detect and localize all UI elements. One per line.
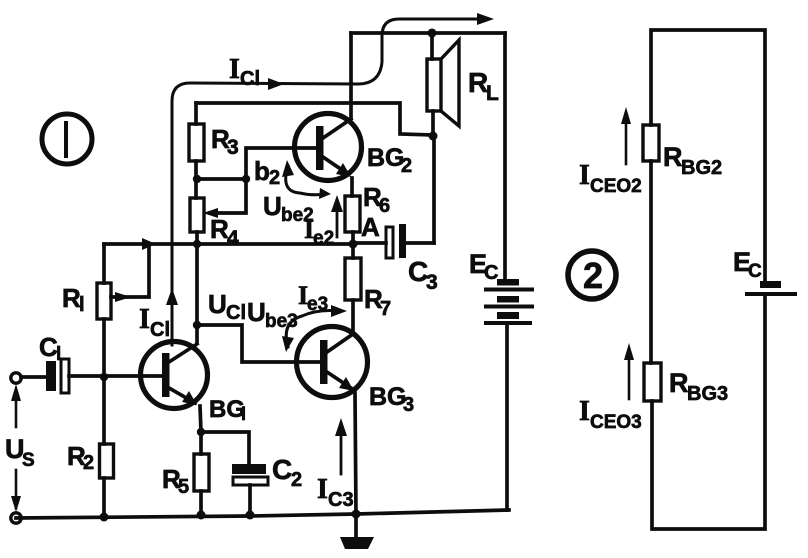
transistor BG1 collector stroke	[169, 344, 197, 362]
resistor R2 body	[100, 444, 114, 478]
svg-text:CEO2: CEO2	[590, 176, 642, 197]
svg-text:e2: e2	[313, 228, 334, 249]
input terminal bottom	[11, 513, 21, 523]
svg-text:Cl: Cl	[150, 319, 170, 341]
svg-text:2: 2	[583, 255, 603, 296]
svg-text:2: 2	[83, 452, 94, 474]
wire emitter node to R5	[199, 432, 203, 454]
svg-text:be3: be3	[265, 311, 298, 332]
transistor BG2 circle	[295, 114, 362, 181]
battery EC right short bar	[760, 281, 781, 288]
battery EC main cell bar 4 long	[486, 305, 532, 309]
battery EC main cell bar 6 long	[486, 321, 530, 325]
battery EC right long bar	[747, 292, 795, 296]
svg-text:I: I	[139, 304, 150, 335]
wire R3-top rail to speaker bottom node	[196, 103, 433, 135]
circled label 1	[42, 114, 92, 164]
svg-text:R: R	[663, 142, 683, 172]
current arc Ube2	[286, 166, 326, 195]
transistor BG3 circle	[297, 327, 368, 398]
svg-text:2: 2	[269, 167, 280, 189]
arrowhead Ube2 arc end	[319, 188, 331, 199]
ground symbol	[340, 537, 374, 549]
input terminal top	[11, 373, 21, 383]
resistor R7 body	[345, 258, 361, 300]
svg-text:BG: BG	[209, 396, 245, 423]
arrowhead ICEO2	[621, 107, 631, 124]
arrowhead IC3	[335, 418, 347, 436]
junction dot input node	[100, 373, 108, 381]
junction dot emitter node BG1	[197, 428, 205, 436]
junction dot UC1 branch	[193, 321, 201, 329]
junction dot ground rail R5	[197, 511, 206, 520]
wire b2 down to R4 wiper	[210, 181, 246, 213]
svg-text:2: 2	[401, 155, 412, 177]
wire speaker top lead	[430, 33, 434, 59]
wire right rail to battery top	[503, 33, 507, 279]
speaker RL frame	[427, 59, 441, 111]
svg-text:6: 6	[379, 195, 390, 217]
current arrow ICEO2	[625, 120, 628, 164]
wire R2 to ground rail	[102, 478, 106, 517]
capacitor C1 left plate	[46, 361, 56, 391]
current arrow ICEO3	[628, 356, 631, 399]
wire C3 right plate to vertical	[406, 241, 434, 245]
wire R3R4 node to b2	[197, 177, 246, 181]
ground stem	[354, 514, 358, 539]
current path IC1 loop	[172, 19, 482, 345]
transistor BG2 emitter stroke	[323, 157, 348, 174]
svg-text:A: A	[361, 212, 380, 242]
wire BG1 collector up through mid rail to R4	[195, 232, 199, 343]
resistor RBG2 body	[643, 125, 659, 161]
transistor BG2 base bar	[316, 126, 324, 170]
capacitor C1 right plate	[61, 359, 69, 393]
wire input terminal to C1	[21, 375, 45, 379]
transistor BG1 circle	[141, 342, 208, 409]
transistor BG3 collector stroke	[327, 334, 353, 352]
arrowhead R1 wiper	[115, 292, 131, 302]
wire input node to R2	[102, 377, 106, 444]
svg-text:2: 2	[291, 469, 302, 491]
svg-text:CEO3: CEO3	[590, 412, 642, 433]
svg-text:BG3: BG3	[687, 383, 728, 405]
svg-text:b: b	[254, 156, 270, 186]
svg-text:4: 4	[227, 227, 239, 250]
transistor BG2 emitter arrowhead	[336, 163, 351, 177]
svg-text:C: C	[272, 454, 292, 485]
wire emitter node to C2	[201, 432, 249, 464]
resistor R5 body	[194, 454, 209, 491]
wire R5 to ground rail	[199, 491, 203, 515]
svg-text:I: I	[317, 474, 328, 505]
arrowhead Ube2 arc	[282, 160, 294, 177]
svg-text:l: l	[56, 344, 61, 365]
wire speaker node down to C3	[432, 136, 436, 243]
wire BG2 collector to top rail	[349, 33, 353, 117]
junction dot ground rail BG3	[352, 510, 361, 519]
transistor BG1 emitter stroke	[169, 388, 195, 403]
wire R7 to BG3 collector	[351, 300, 355, 334]
svg-text:S: S	[22, 450, 35, 471]
resistor R4 body	[190, 198, 204, 232]
arrowhead mid rail	[142, 238, 156, 250]
arrowhead R4 wiper	[203, 208, 218, 218]
resistor RBG3 body	[644, 363, 661, 401]
wire speaker bottom lead	[431, 111, 435, 136]
wire BG1 emitter down	[200, 406, 201, 432]
resistor R6 body	[345, 196, 360, 232]
svg-text:l: l	[79, 294, 85, 316]
svg-text:BG: BG	[369, 383, 407, 411]
svg-text:3: 3	[426, 271, 438, 294]
current arrow Ie2	[336, 203, 339, 237]
svg-text:Cl: Cl	[226, 302, 246, 324]
capacitor C2 top plate	[232, 464, 266, 474]
wire bottom ground rail	[16, 510, 509, 518]
arrowhead IC1 loop vertical	[166, 288, 178, 305]
battery EC main cell bar 5 short	[497, 312, 519, 319]
junction dot b2	[242, 175, 250, 183]
arrowhead IC1 loop end	[477, 13, 494, 25]
right loop wire bottom	[652, 296, 765, 529]
arrowhead Ie3 arc end	[331, 305, 347, 317]
junction dot node A	[349, 240, 358, 249]
svg-text:l: l	[241, 404, 246, 424]
svg-text:U: U	[247, 297, 266, 327]
wire mid rail left drop to R1	[102, 244, 106, 283]
wire R3 top lead	[194, 103, 198, 124]
svg-text:C: C	[484, 262, 498, 284]
wire R3 to R4	[194, 161, 198, 198]
speaker RL cone	[441, 40, 459, 126]
wire BG3 emitter to ground rail	[355, 393, 356, 514]
junction dot speaker top	[428, 29, 437, 38]
capacitor C2 bottom plate	[233, 477, 268, 485]
wire BG2 emitter to R6	[350, 178, 354, 196]
circled label 2	[568, 251, 616, 299]
svg-text:U: U	[208, 289, 227, 319]
wire node A to R7	[351, 244, 355, 258]
wire R6 to node A	[351, 232, 355, 244]
transistor BG3 emitter arrowhead	[339, 377, 354, 391]
arrowhead ICEO3	[624, 343, 634, 360]
current arrow IC3	[340, 427, 343, 474]
right loop wire	[651, 30, 765, 281]
transistor BG2 collector stroke	[323, 119, 351, 138]
capacitor C3 right plate	[399, 224, 406, 258]
resistor R3 body	[189, 124, 204, 161]
svg-text:3: 3	[403, 394, 414, 416]
capacitor C3 left plate	[386, 227, 393, 258]
arrowhead Us up	[11, 384, 21, 401]
wire node A to C3	[353, 241, 386, 245]
svg-text:I: I	[579, 160, 590, 191]
junction dot ground rail C2	[246, 511, 255, 520]
svg-text:U: U	[263, 191, 282, 221]
svg-text:e3: e3	[307, 294, 328, 315]
svg-text:BG: BG	[367, 144, 405, 172]
wire mid rail R1 to node A	[104, 242, 353, 246]
arrowhead Ube3 arc start	[282, 336, 294, 352]
junction dot speaker bottom	[429, 132, 438, 141]
transistor BG3 emitter stroke	[327, 372, 351, 388]
svg-text:Cl: Cl	[240, 68, 260, 90]
transistor BG1 base bar	[162, 353, 170, 397]
transistor BG3 base bar	[320, 340, 328, 384]
svg-text:L: L	[486, 82, 499, 105]
svg-text:5: 5	[178, 476, 189, 498]
source Us arrow line lower	[15, 470, 18, 508]
wire top rail collector BG2 to battery	[351, 31, 505, 35]
arrowhead Ie2	[331, 195, 343, 212]
circled label 1 bar	[64, 123, 68, 156]
svg-text:C: C	[748, 261, 762, 282]
svg-text:R: R	[669, 368, 689, 398]
junction dot R4 bottom rail	[193, 240, 201, 248]
wire R1 to input node	[102, 319, 106, 377]
svg-text:7: 7	[380, 298, 391, 320]
svg-text:BG2: BG2	[681, 157, 722, 179]
current arc Ube3 Ie3	[286, 311, 338, 347]
junction dot R3 R4	[193, 175, 201, 183]
arrowhead Us down	[11, 496, 21, 512]
battery EC main cell bar 2 long	[486, 288, 532, 292]
wire R1 wiper	[111, 244, 149, 297]
svg-text:3: 3	[227, 136, 239, 159]
wire C2 to ground rail	[248, 485, 252, 515]
svg-text:I: I	[579, 396, 590, 427]
arrowhead IC1 loop mid horizontal	[268, 78, 284, 90]
wire C1 to BG1 base	[69, 374, 166, 378]
svg-text:I: I	[229, 54, 240, 85]
wire battery bottom to ground rail	[505, 325, 509, 510]
wire U_C1 branch BG1 collector to BG3 base	[197, 325, 322, 362]
battery EC main cell bar 1 short	[497, 279, 519, 286]
junction dot ground rail R2	[100, 513, 109, 522]
transistor BG1 emitter arrowhead	[182, 391, 197, 405]
right loop wire lower left	[649, 161, 653, 363]
resistor R1 body	[97, 283, 111, 319]
wire b2 up to BG2 base	[246, 148, 318, 179]
battery EC main cell bar 3 short	[497, 296, 519, 303]
source Us arrow line upper	[15, 390, 18, 427]
svg-text:C3: C3	[328, 489, 354, 511]
